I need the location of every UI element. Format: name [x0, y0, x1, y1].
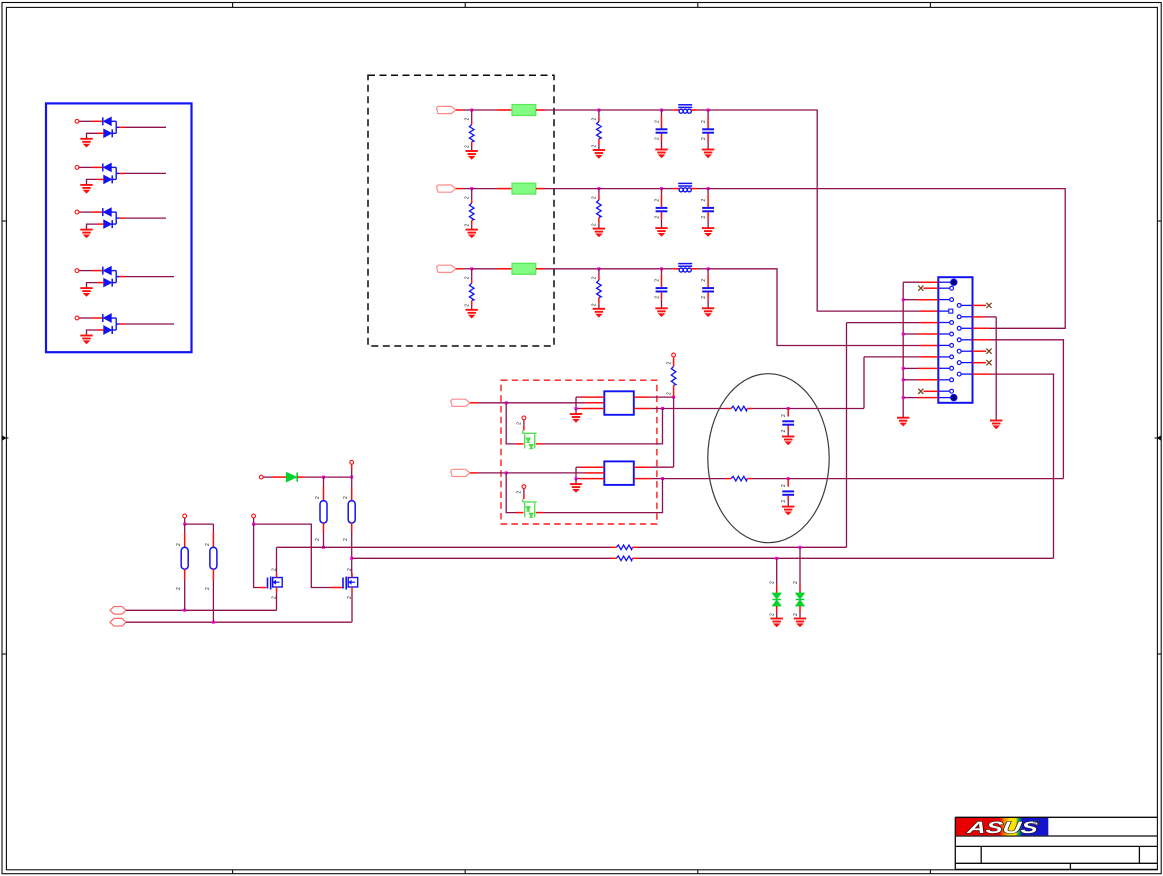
svg-text:2: 2 [592, 118, 598, 121]
svg-text:2: 2 [315, 496, 321, 499]
svg-text:2: 2 [465, 196, 471, 199]
svg-text:2: 2 [770, 581, 776, 584]
svg-text:2: 2 [781, 500, 787, 503]
svg-text:2: 2 [176, 543, 182, 546]
svg-text:2: 2 [517, 422, 523, 425]
svg-text:2: 2 [465, 276, 471, 279]
svg-text:2: 2 [666, 392, 672, 395]
svg-text:2: 2 [701, 199, 707, 202]
svg-text:2: 2 [315, 538, 321, 541]
svg-text:2: 2 [701, 296, 707, 299]
svg-text:2: 2 [701, 279, 707, 282]
svg-text:2: 2 [781, 484, 787, 487]
svg-text:2: 2 [781, 430, 787, 433]
svg-text:2: 2 [666, 362, 672, 365]
svg-text:2: 2 [654, 296, 660, 299]
svg-text:2: 2 [654, 199, 660, 202]
svg-text:2: 2 [781, 414, 787, 417]
svg-text:2: 2 [205, 543, 211, 546]
svg-text:2: 2 [701, 216, 707, 219]
svg-text:2: 2 [343, 538, 349, 541]
svg-text:2: 2 [793, 581, 799, 584]
svg-text:2: 2 [654, 120, 660, 123]
svg-text:ASUS: ASUS [965, 818, 1039, 837]
svg-text:2: 2 [592, 303, 598, 306]
svg-text:2: 2 [465, 145, 471, 148]
svg-text:2: 2 [654, 279, 660, 282]
svg-text:2: 2 [592, 145, 598, 148]
svg-text:2: 2 [701, 137, 707, 140]
svg-text:2: 2 [176, 587, 182, 590]
svg-text:2: 2 [465, 118, 471, 121]
svg-text:2: 2 [654, 216, 660, 219]
svg-text:2: 2 [592, 223, 598, 226]
svg-text:2: 2 [205, 587, 211, 590]
svg-text:2: 2 [347, 568, 353, 571]
svg-text:2: 2 [592, 276, 598, 279]
svg-text:2: 2 [465, 304, 471, 307]
svg-text:2: 2 [465, 224, 471, 227]
svg-text:2: 2 [343, 496, 349, 499]
svg-text:2: 2 [592, 196, 598, 199]
svg-text:2: 2 [793, 613, 799, 616]
svg-text:2: 2 [654, 137, 660, 140]
svg-text:2: 2 [701, 120, 707, 123]
svg-text:2: 2 [517, 491, 523, 494]
svg-text:2: 2 [770, 613, 776, 616]
